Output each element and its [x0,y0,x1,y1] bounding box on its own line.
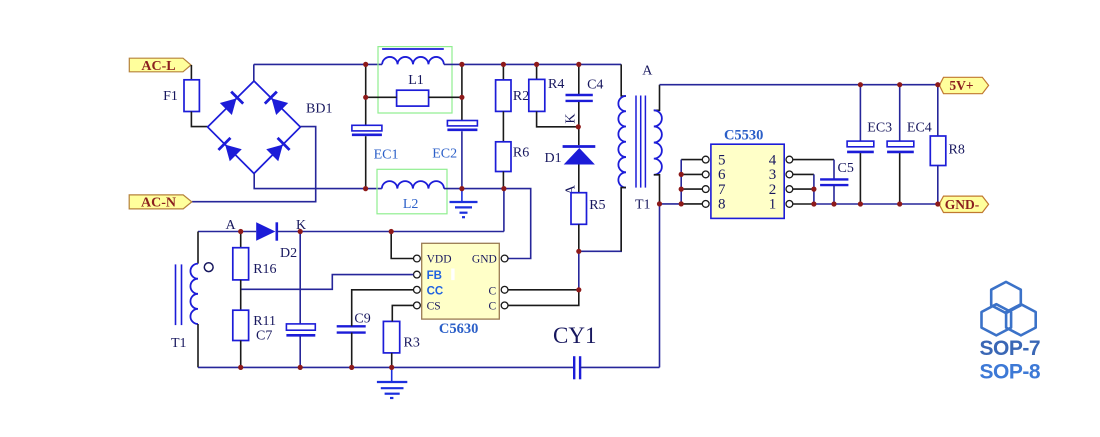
svg-text:VDD: VDD [427,253,452,265]
capacitor EC2 [447,121,477,130]
junction node at 365.7,97.3 [363,95,368,100]
L1 core line [382,48,444,50]
resistor R3 [383,321,399,353]
junction node at 503.4,64.4 [501,62,506,67]
diode D1 [563,147,596,165]
wire D1 to R5 [578,165,580,193]
wire pin6 stub [681,173,702,175]
svg-text:GND: GND [472,253,497,265]
wire C pin lower to R5 node [508,290,579,306]
junction node at 681.2,189.1 [679,187,684,192]
svg-text:A: A [642,64,653,79]
wire C5 to GND rail [833,185,835,204]
resistor R16 [240,232,242,248]
wire DC- rail to L2 [366,188,382,190]
junction node at 813.9,204 [811,201,816,206]
wire pin4 to C5 [793,159,834,161]
wire aux rail D2 to VDD corner [277,189,504,232]
white mark inside C5630 [451,269,454,281]
junction node at 578.8,289.8 [576,287,581,292]
svg-text:8: 8 [718,197,726,213]
port GND- [939,196,989,212]
junction node at 461.9,97.3 [459,95,464,100]
svg-text:5V+: 5V+ [949,78,973,93]
capacitor C9 [337,326,366,332]
wire R5 node down to C pins node [578,251,580,289]
logo hexagon top [991,282,1021,313]
pin circles C5630 right [501,255,508,309]
transformer T1 aux core [176,264,182,325]
wire pin3 down to pin2 wire [793,173,814,175]
logo hexagon bottom-right [1006,304,1036,335]
wire CS pin to R3 [392,305,413,321]
transformer T1 aux winding [190,264,198,324]
junction node at 578.3,126.8 [576,124,581,129]
wire DC- rail right part to GND pin [444,189,531,259]
transformer T1 aux lead top [197,232,199,264]
pin circles C5530 left [702,156,709,207]
resistor R11 [233,310,249,340]
capacitor C7 [299,232,301,324]
junction node at 681.2,174.4 [679,172,684,177]
transformer T1 core [636,96,645,188]
inductor L2 [382,181,444,189]
IC U2 C5530 [711,144,784,218]
diode D2 [256,222,277,240]
svg-text:6: 6 [718,167,726,183]
svg-text:CY1: CY1 [553,323,596,348]
svg-text:7: 7 [718,182,726,198]
wire R5 node to primary bottom [579,188,621,252]
svg-text:L1: L1 [408,73,424,88]
wire aux rail from T1 to D2 [198,231,256,233]
wire F1 to bridge left vertex [191,112,207,127]
wire pin5 to left column [681,159,702,161]
junction node at 365.6,188.6 [363,186,368,191]
port AC-L [129,58,191,74]
wire EC2 stem top [461,64,463,120]
svg-text:C5630: C5630 [439,321,478,337]
resistor R6 [496,142,511,172]
svg-text:EC2: EC2 [432,147,457,162]
junction node at 536.6,64.4 [534,62,539,67]
wire C4 to node K [578,102,580,145]
capacitor C5 [820,179,848,185]
wire EC1 stem top [365,64,367,125]
junction node at 681.2,203.9 [679,201,684,206]
svg-text:C7: C7 [256,329,272,344]
transformer T1 aux lead bottom [197,324,199,367]
transformer T1 secondary winding [654,110,662,174]
svg-text:CS: CS [427,300,441,312]
capacitor EC1 [352,125,382,135]
L1 parallel resistor [397,90,429,106]
svg-text:R11: R11 [253,314,276,329]
resistor R2 [502,64,504,80]
pin circles C5530 right [786,156,793,207]
junction node at 937.8,84.7 [935,82,940,87]
wire R2 to R6 [502,111,504,141]
wire VDD pin to aux rail [391,232,413,259]
junction node at 578.8,64.4 [576,62,581,67]
svg-text:R4: R4 [548,77,564,92]
phase dot circle aux winding [204,263,213,272]
svg-text:4: 4 [769,152,777,168]
junction node at 937.8,204 [935,201,940,206]
svg-text:D2: D2 [280,246,297,261]
svg-text:3: 3 [769,167,777,183]
svg-text:CC: CC [427,285,444,297]
transformer T1 secondary lead bottom [654,175,660,204]
transformer T1 primary lead bottom [621,188,626,252]
wire bottom rail right of CY1 [580,366,659,368]
svg-text:C: C [489,300,497,312]
junction node at 240.7,367.4 [238,365,243,370]
wire EC1 stem bottom [365,136,367,188]
svg-text:2: 2 [769,182,777,198]
capacitor CY1 [574,356,580,379]
L2 green box [377,169,447,214]
junction node at 351.7,367.4 [349,365,354,370]
logo hexagon bottom-left [982,304,1012,335]
wire C pin upper to R5 node [508,289,579,291]
junction node at 834,204 [831,201,836,206]
svg-text:R2: R2 [513,89,529,104]
resistor R4 [536,64,538,79]
svg-text:SOP-8: SOP-8 [980,361,1041,384]
resistor R8 [937,85,939,136]
junction node at 813.9,189.1 [811,187,816,192]
wire AC-L to F1 [190,65,192,80]
junction node at 659.5,203.9 [657,201,662,206]
wire bridge top riser [253,64,255,81]
svg-text:A: A [225,218,236,233]
junction node at 391.7,367.4 [389,365,394,370]
svg-text:C5: C5 [838,161,854,176]
junction node at 391.2,231.5 [389,229,394,234]
pin circles C5630 left [414,255,421,309]
capacitor EC4 [899,85,901,141]
junction node at 578.8,251.3 [576,249,581,254]
transformer T1 primary winding [618,96,626,188]
junction node at 300.2,231.5 [298,229,303,234]
svg-text:GND-: GND- [945,197,980,212]
svg-text:5: 5 [718,152,726,168]
fuse F1 [184,80,199,112]
svg-text:R6: R6 [513,145,529,160]
wire top rail left part [254,63,382,65]
svg-text:EC1: EC1 [374,148,399,163]
junction node at 300.2,367.4 [298,365,303,370]
junction node at 461.9,64.4 [459,62,464,67]
wire pin8 to secondary node [681,203,702,205]
svg-text:T1: T1 [171,336,187,351]
IC U1 C5630 [422,243,500,319]
junction node at 240.7,231.5 [238,229,243,234]
wire top rail right part [444,63,621,65]
wire pin2 stub [793,188,814,190]
svg-text:R5: R5 [589,198,605,213]
svg-text:FB: FB [427,270,442,282]
L1 green box [378,47,452,113]
wire pin7 stub [681,188,702,190]
wire bridge bottom to DC- rail [254,174,365,189]
junction node at 503.9,188.6 [501,186,506,191]
inductor L1 [382,57,444,64]
ground under EC2 [450,189,478,218]
svg-text:K: K [564,113,579,123]
svg-text:EC3: EC3 [867,121,892,136]
junction node at 461.9,188.6 [459,186,464,191]
svg-text:L2: L2 [403,197,419,212]
junction node at 899.7,204 [897,201,902,206]
wire EC2 stem bottom [461,131,463,188]
wire second rail [366,96,462,98]
svg-text:EC4: EC4 [907,121,932,136]
bridge rectifier BD1 [208,81,301,174]
svg-text:AC-N: AC-N [141,196,176,211]
wire R4 bottom to node K [537,111,579,126]
wire 5V+ rail [660,84,938,86]
svg-text:C9: C9 [354,312,370,327]
wire R11 to bottom rail [240,341,242,368]
svg-text:T1: T1 [635,198,651,213]
svg-text:SOP-7: SOP-7 [980,337,1041,360]
wire R6 to DC- rail [502,172,504,189]
svg-text:F1: F1 [163,89,178,104]
svg-text:R16: R16 [253,262,276,277]
svg-text:D1: D1 [545,151,562,166]
junction node at 860.4,204 [858,201,863,206]
wire R5 bottom [578,224,580,251]
ground under R3 [377,367,407,398]
junction node at 860.4,84.7 [858,82,863,87]
capacitor EC3 [859,85,861,141]
wire bottom rail left part [198,366,574,368]
svg-text:R8: R8 [949,142,965,157]
port AC-N [129,195,192,211]
junction node at 899.7,84.7 [897,82,902,87]
resistor R5 [571,193,587,225]
junction node at 365.7,64.4 [363,62,368,67]
svg-text:C4: C4 [587,77,603,92]
wire CC pin to C9 [352,290,414,327]
wire GND rail [793,203,814,205]
svg-text:R3: R3 [404,336,420,351]
wire AC-N return to bridge right vertex [192,127,316,202]
svg-text:BD1: BD1 [306,102,332,117]
svg-text:C: C [489,285,497,297]
svg-text:C5530: C5530 [724,128,763,144]
svg-text:1: 1 [769,197,777,213]
capacitor C4 [578,64,580,94]
transformer T1 secondary lead top [654,85,660,111]
wire secondary bottom down to CY1 [659,204,661,368]
transformer T1 primary lead top [621,64,626,96]
wire R16 to R11 [240,280,242,310]
port 5V+ [939,77,988,93]
wire FB pin to R16 R11 node [241,275,413,290]
svg-text:AC-L: AC-L [141,59,175,74]
